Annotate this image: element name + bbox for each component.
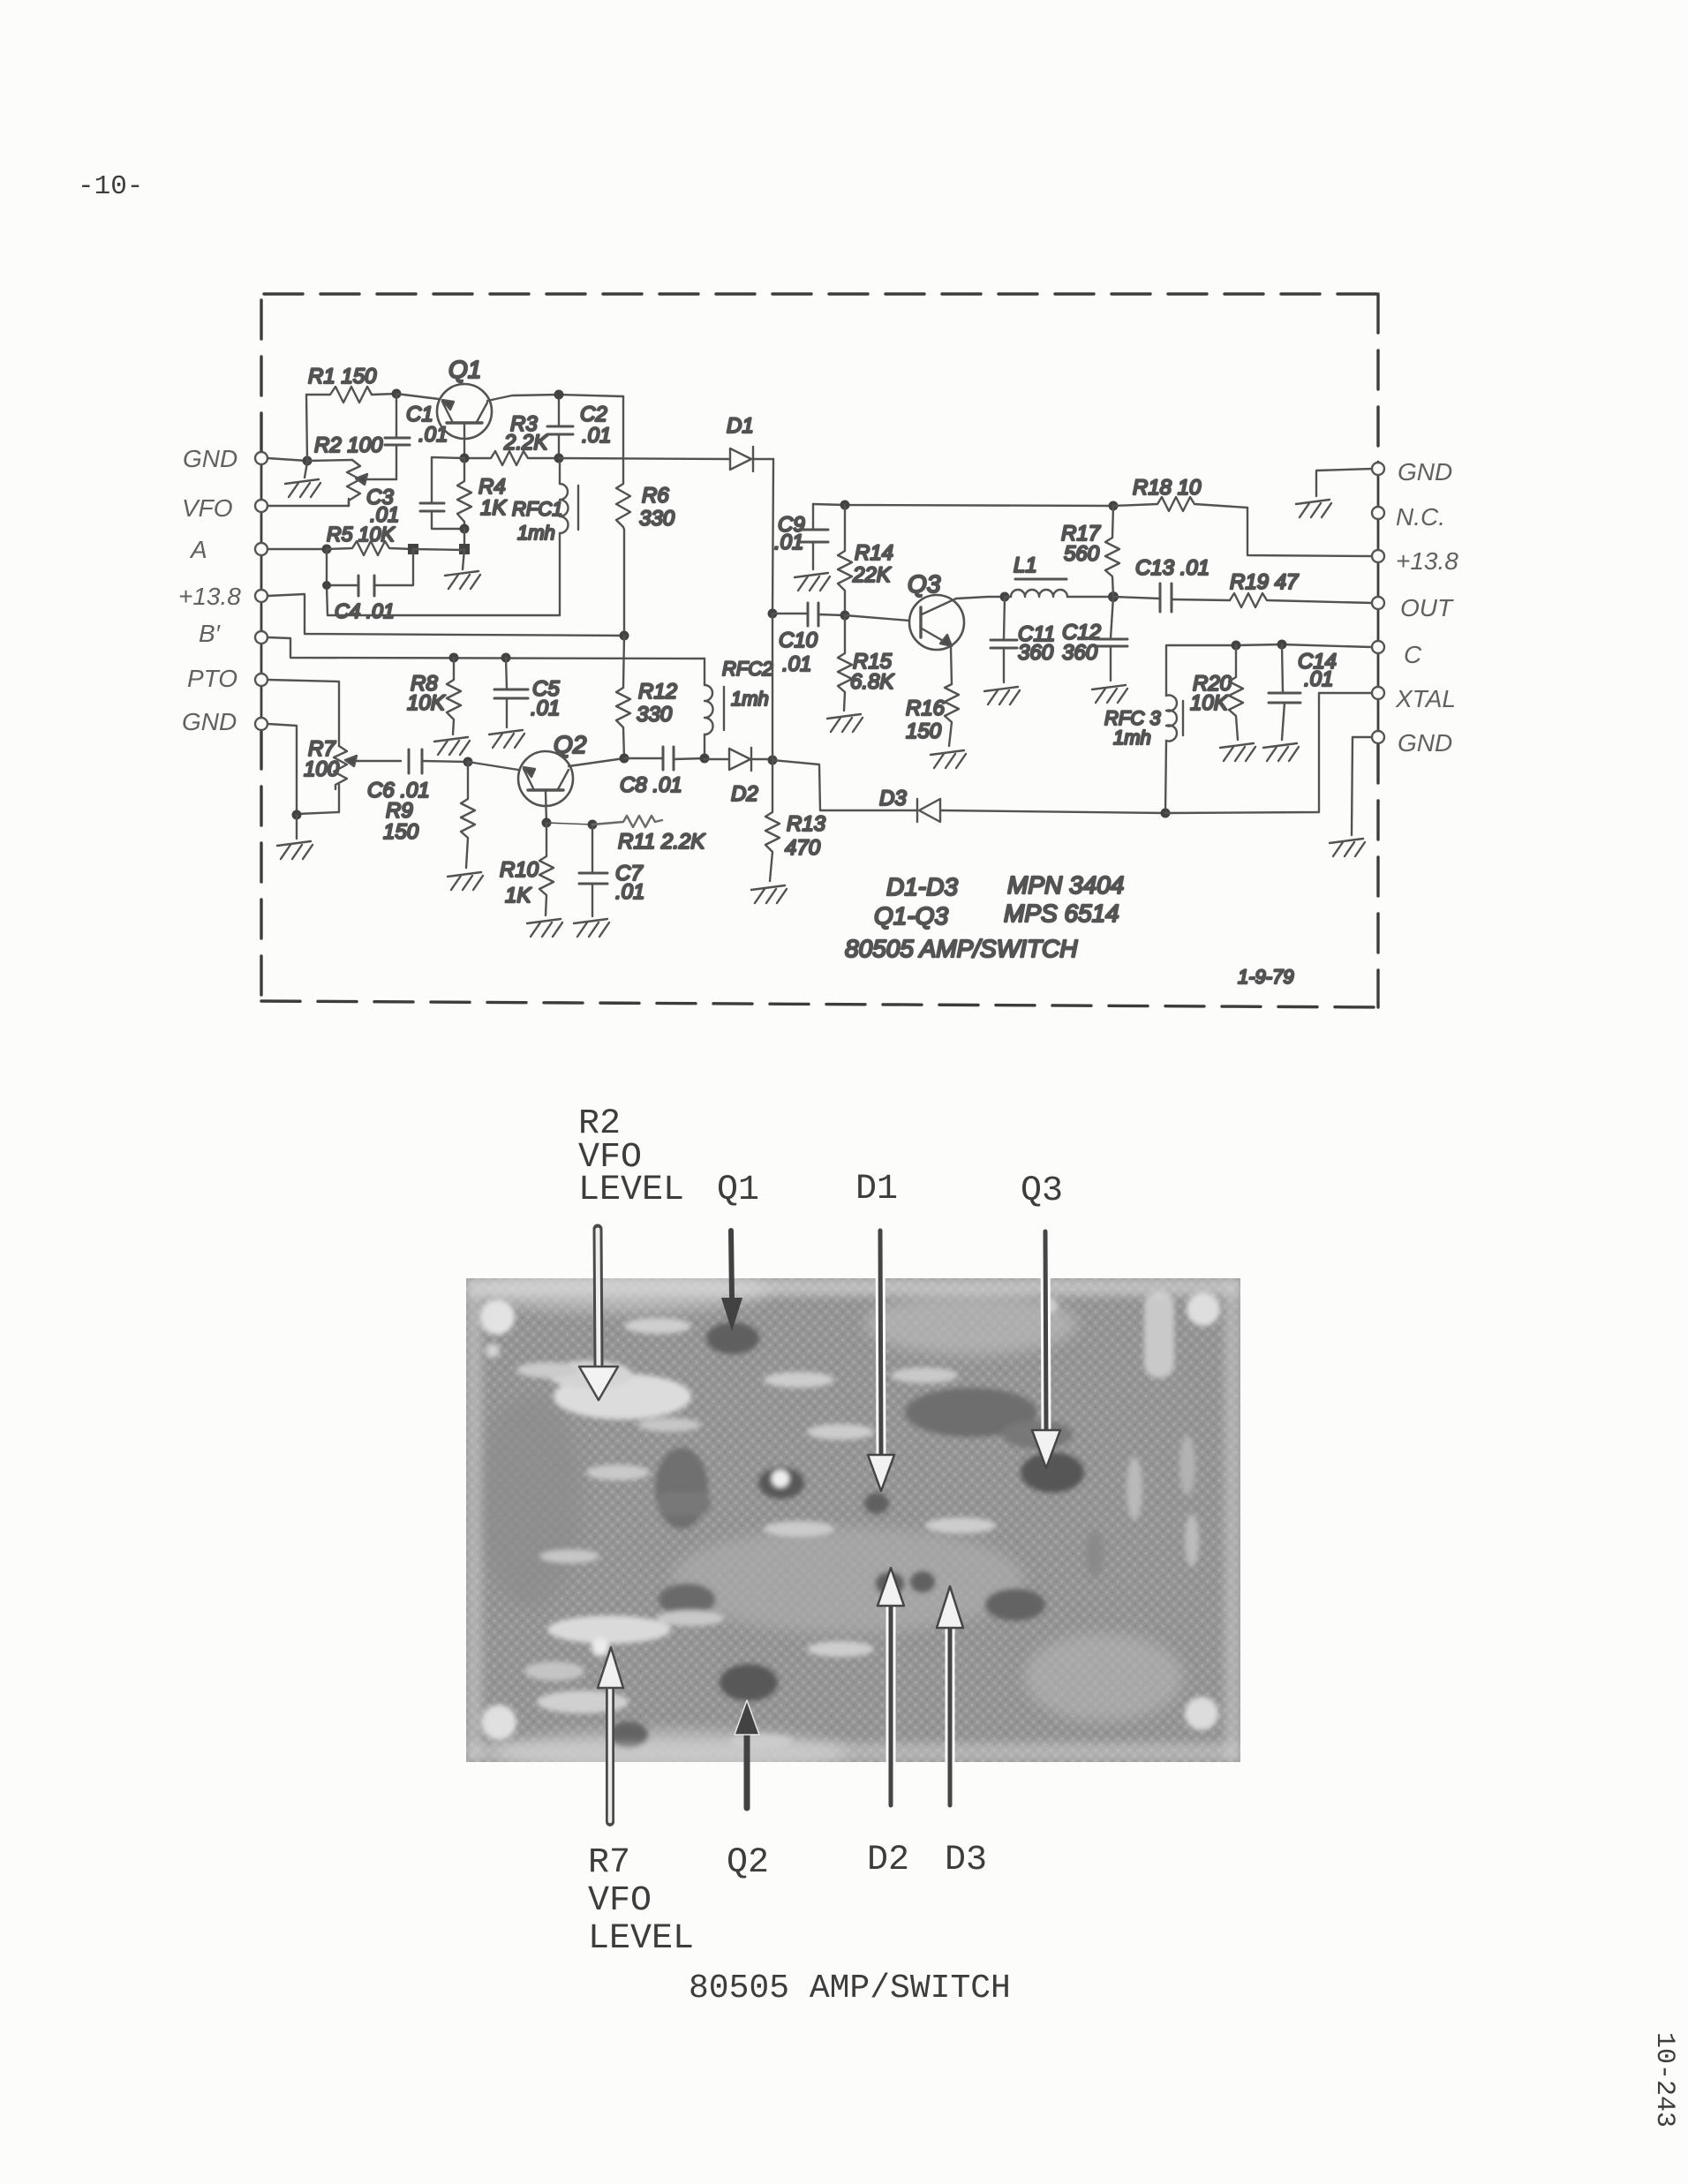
capacitor C14 (1269, 644, 1337, 740)
resistor R1 (306, 365, 396, 403)
transistor Q2 (518, 731, 587, 823)
ground (1296, 500, 1331, 517)
wire B-prime line (268, 637, 705, 659)
wire VFO line (268, 499, 349, 506)
arrow to D2 (878, 1568, 904, 1805)
svg-text:+13.8: +13.8 (178, 583, 241, 610)
svg-text:.01: .01 (418, 423, 448, 447)
svg-text:D1: D1 (855, 1170, 898, 1209)
svg-text:D3: D3 (945, 1841, 987, 1880)
ground (285, 463, 320, 497)
left terminal labels (178, 445, 241, 735)
resistor R5 (327, 523, 413, 555)
node R20 top (1232, 641, 1241, 651)
wire GND2 line (268, 724, 297, 815)
svg-text:1-9-79: 1-9-79 (1238, 966, 1294, 988)
wire down to ground (463, 549, 464, 569)
resistor R14 (838, 505, 893, 615)
svg-text:R1 150: R1 150 (308, 365, 377, 388)
capacitor C1 (385, 394, 448, 479)
svg-text:.01: .01 (1304, 667, 1333, 691)
wire base node to Q3 (845, 615, 909, 621)
inductor RFC1 (512, 463, 578, 615)
ground (434, 737, 470, 755)
svg-text:D1: D1 (727, 414, 754, 438)
node C10 tee on D1 line (768, 609, 778, 619)
svg-text:C8 .01: C8 .01 (620, 773, 682, 797)
capacitor C13 (1113, 556, 1230, 612)
arrow to D3 (937, 1586, 963, 1805)
svg-text:C4 .01: C4 .01 (335, 599, 395, 622)
diode D3 (879, 787, 1165, 822)
svg-text:C10: C10 (779, 629, 818, 652)
svg-text:R6: R6 (642, 484, 669, 508)
wire R1 left lead vertical (306, 395, 307, 461)
svg-text:-10-: -10- (78, 171, 143, 202)
capacitor C4 (322, 549, 413, 622)
resistor R15 (838, 615, 894, 711)
resistor R10 (500, 823, 554, 915)
svg-text:10K: 10K (1190, 691, 1229, 715)
wire C1 to R2 wiper (360, 478, 396, 480)
wire node to Q1 emitter (396, 394, 439, 399)
svg-text:D3: D3 (879, 787, 907, 810)
svg-text:B′: B′ (199, 620, 222, 647)
svg-text:330: 330 (637, 703, 673, 727)
arrow to R7 (598, 1647, 623, 1822)
resistor R13 (765, 760, 826, 881)
svg-text:R11 2.2K: R11 2.2K (618, 830, 705, 854)
svg-text:MPS 6514: MPS 6514 (1004, 900, 1119, 927)
schematic frame dashed border (261, 294, 1378, 1007)
resistor R6 (616, 396, 675, 636)
node Q3 base junction (840, 611, 850, 621)
svg-text:R13: R13 (787, 812, 826, 836)
resistor R16 (906, 684, 959, 746)
capacitor C6 (367, 749, 468, 802)
arrow to D1 (868, 1231, 894, 1491)
node C2 top junction (554, 390, 564, 400)
svg-text:Q1-Q3: Q1-Q3 (874, 902, 948, 930)
svg-text:6.8K: 6.8K (850, 670, 894, 694)
wire Q3 collector to L1 node (956, 597, 1005, 599)
node R7 bottom / GND2 junction (292, 810, 302, 820)
wire D2 node to D3 line (772, 760, 917, 810)
node R1/C1 junction (392, 389, 402, 399)
capacitor C3 (366, 457, 464, 529)
svg-text:.01: .01 (531, 697, 560, 720)
left terminals (circles) (255, 452, 268, 730)
svg-text:OUT: OUT (1400, 594, 1454, 621)
resistor R8 (407, 658, 461, 734)
wire D3 line to XTAL (1165, 693, 1372, 813)
svg-text:330: 330 (639, 507, 675, 531)
right terminals (circles) (1372, 463, 1384, 743)
svg-text:2.2K: 2.2K (503, 431, 548, 455)
node C2 bottom / base bus junction (554, 454, 564, 463)
svg-text:R19 47: R19 47 (1230, 570, 1300, 594)
wire R4 node down to A-line (463, 529, 465, 549)
svg-text:GND: GND (1398, 458, 1452, 486)
frame solid segments at terminal columns (261, 452, 1378, 744)
wire PTO line (268, 680, 339, 746)
svg-text:10-243: 10-243 (1649, 2032, 1679, 2128)
svg-text:RFC2: RFC2 (722, 658, 772, 680)
svg-text:1K: 1K (480, 496, 507, 520)
resistor R17 (1061, 506, 1119, 597)
svg-text:.01: .01 (774, 531, 803, 554)
right terminal labels (1395, 458, 1458, 757)
capacitor C12 (1062, 597, 1127, 681)
wire GND bottom-right (1352, 737, 1372, 835)
node RFC2 bottom / C8 / D2 junction (700, 754, 710, 764)
svg-text:150: 150 (906, 719, 942, 743)
svg-text:D2: D2 (731, 782, 758, 806)
svg-text:VFO: VFO (182, 494, 233, 522)
node L1 right / R17 / C12 / C13 junction (1108, 591, 1119, 602)
capacitor C5 (494, 658, 560, 727)
capacitor C11 (991, 597, 1055, 682)
wire Q2 collector to R12 node (569, 758, 624, 766)
svg-text:GND: GND (182, 708, 237, 735)
wire +13.8 line (268, 594, 624, 636)
svg-text:80505 AMP/SWITCH: 80505 AMP/SWITCH (689, 1969, 1011, 2007)
svg-text:100: 100 (304, 757, 340, 781)
node RFC3 bottom / D3 line junction (1161, 809, 1171, 818)
inductor RFC2 (705, 658, 772, 758)
svg-text:C2: C2 (580, 403, 607, 426)
node A-line / C4 left (322, 545, 332, 554)
node D2 cathode / R13 / D1 line junction (768, 756, 778, 765)
svg-text:N.C.: N.C. (1396, 503, 1445, 531)
ground (574, 919, 609, 937)
wire C terminal line (1166, 644, 1372, 696)
svg-text:PTO: PTO (187, 665, 237, 692)
svg-text:A: A (189, 536, 207, 563)
svg-text:XTAL: XTAL (1395, 685, 1456, 712)
wire GND terminal to node (268, 458, 307, 461)
ground (827, 714, 863, 732)
svg-text:R14: R14 (855, 541, 893, 565)
svg-text:C: C (1404, 641, 1422, 668)
svg-text:GND: GND (183, 445, 237, 472)
svg-text:Q1: Q1 (717, 1171, 759, 1210)
ground (1092, 685, 1127, 703)
resistor R11 (592, 816, 705, 854)
svg-text:D2: D2 (867, 1841, 909, 1880)
ground (277, 815, 313, 859)
resistor R20 (1190, 645, 1243, 740)
photo pointer labels (typewriter) (578, 1104, 1063, 1959)
arrow to R2 (579, 1229, 618, 1400)
svg-text:R16: R16 (906, 697, 946, 720)
wire emitter node to C7 node (546, 823, 592, 825)
schematic notes text (845, 871, 1294, 988)
svg-text:22K: 22K (852, 563, 892, 587)
svg-text:560: 560 (1064, 542, 1100, 566)
svg-text:Q3: Q3 (908, 570, 941, 598)
svg-text:R7: R7 (588, 1843, 630, 1883)
wire R5 node to emitter node (413, 549, 464, 550)
svg-text:LEVEL: LEVEL (588, 1919, 694, 1959)
wire GND top-right (1316, 469, 1372, 496)
svg-text:R9: R9 (386, 799, 413, 823)
wire R18 to +13.8 terminal (1247, 508, 1372, 556)
ground (1263, 743, 1299, 761)
node L1 left junction (1000, 592, 1010, 602)
arrow to Q1 (721, 1231, 742, 1331)
svg-text:RFC1: RFC1 (512, 498, 562, 520)
node R5 right / C4 right (408, 544, 418, 554)
svg-text:R4: R4 (479, 475, 506, 499)
ground (931, 750, 966, 768)
svg-text:360: 360 (1018, 641, 1054, 665)
wire base bus to D1 (559, 458, 730, 459)
svg-text:R18 10: R18 10 (1133, 476, 1202, 500)
node Q1 base junction (460, 454, 470, 463)
svg-text:+13.8: +13.8 (1396, 547, 1458, 575)
resistor R18 (1113, 476, 1247, 511)
resistor R19 (1230, 570, 1372, 607)
capacitor C2 (547, 395, 611, 458)
svg-text:80505 AMP/SWITCH: 80505 AMP/SWITCH (845, 935, 1078, 962)
wire A-line (268, 548, 327, 550)
wire D1 line lower segment (772, 614, 773, 760)
resistor R12 (616, 636, 677, 758)
svg-text:150: 150 (383, 820, 419, 844)
node R4/C3 junction (460, 524, 470, 534)
svg-text:.01: .01 (615, 880, 644, 904)
capacitor C10 (772, 603, 845, 676)
svg-text:360: 360 (1062, 641, 1098, 665)
wire C6 node to Q2 (468, 762, 518, 770)
potentiometer R7 (298, 737, 401, 814)
ground (795, 573, 830, 591)
ground (527, 919, 562, 937)
node R14 top (840, 501, 850, 510)
svg-text:Q3: Q3 (1021, 1171, 1063, 1211)
svg-text:1mh: 1mh (731, 688, 769, 710)
svg-text:R5 10K: R5 10K (327, 523, 396, 546)
diode D2 (705, 748, 772, 806)
svg-text:Q2: Q2 (554, 731, 587, 758)
resistor R3 (464, 412, 559, 465)
resistor R4 (457, 458, 507, 529)
PCB photograph (466, 1269, 1240, 1774)
svg-text:MPN 3404: MPN 3404 (1007, 871, 1124, 899)
svg-text:470: 470 (785, 836, 821, 860)
svg-text:10K: 10K (407, 691, 446, 715)
transistor Q1 (437, 356, 492, 458)
capacitor C7 (579, 825, 644, 916)
wire RFC1 bottom to C4 node (327, 585, 560, 615)
capacitor C8 (620, 747, 705, 797)
svg-text:1K: 1K (505, 884, 531, 907)
wire Q3 emitter down (951, 648, 952, 684)
svg-text:L1: L1 (1014, 554, 1037, 577)
resistor R9 (383, 762, 475, 868)
arrow to Q3 (1032, 1231, 1060, 1468)
wire D1 cathode down (772, 459, 773, 614)
node R17 top junction (1109, 501, 1119, 511)
node C6/R9/Q2 junction (463, 757, 473, 767)
svg-text:GND: GND (1398, 729, 1452, 757)
svg-text:LEVEL: LEVEL (578, 1171, 684, 1210)
node R12 bottom / Q2 collector line (620, 754, 629, 764)
svg-text:Q1: Q1 (448, 356, 481, 383)
ground (489, 730, 524, 748)
arrow to Q2 (735, 1700, 759, 1808)
svg-text:D1-D3: D1-D3 (886, 873, 958, 900)
node emitter/A-line junction (459, 544, 470, 554)
svg-text:VFO: VFO (588, 1881, 652, 1921)
wire Q1 collector to R6 top (487, 395, 623, 401)
ground (1330, 839, 1365, 856)
svg-text:.01: .01 (582, 424, 611, 448)
node R2/R1/GND junction (303, 456, 313, 466)
capacitor C9 (774, 504, 828, 569)
node Q2 emitter bottom (542, 818, 552, 828)
node C7 top (588, 820, 598, 830)
inductor RFC3 (1104, 696, 1183, 814)
ground (445, 571, 480, 589)
ground (751, 885, 787, 903)
wire top bus C9 to R17 (813, 504, 1113, 506)
svg-text:C13 .01: C13 .01 (1135, 556, 1209, 580)
diode D1 (727, 414, 773, 471)
ground (448, 872, 483, 890)
node R8 top (449, 653, 459, 663)
ground (1220, 743, 1255, 761)
svg-text:R12: R12 (638, 680, 677, 704)
svg-text:1mh: 1mh (1113, 727, 1151, 749)
svg-text:R10: R10 (500, 858, 539, 882)
ground (984, 687, 1020, 704)
node +13.8/R6/R12 junction (620, 631, 629, 641)
svg-text:R2 100: R2 100 (314, 433, 383, 457)
svg-text:.01: .01 (782, 652, 811, 676)
potentiometer R2 (307, 433, 383, 505)
node C5 top (501, 653, 511, 663)
transistor Q3 (908, 570, 964, 650)
svg-text:Q2: Q2 (727, 1843, 769, 1883)
inductor L1 (1005, 554, 1113, 597)
node C14 top (1277, 640, 1287, 650)
svg-text:1mh: 1mh (517, 522, 555, 544)
